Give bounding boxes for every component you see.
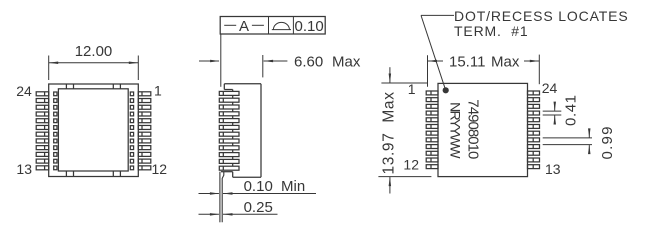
svg-text:24: 24 xyxy=(16,83,32,99)
svg-text:0.10: 0.10 xyxy=(244,178,273,195)
svg-text:0.99: 0.99 xyxy=(599,127,616,160)
svg-text:74908010: 74908010 xyxy=(465,99,482,159)
svg-text:Max: Max xyxy=(491,54,520,71)
svg-text:24: 24 xyxy=(542,80,558,96)
svg-text:Max: Max xyxy=(332,54,361,71)
svg-text:DOT/RECESS LOCATES: DOT/RECESS LOCATES xyxy=(454,8,629,24)
svg-text:12: 12 xyxy=(152,161,168,177)
svg-text:13: 13 xyxy=(545,161,561,177)
svg-text:13: 13 xyxy=(16,161,32,177)
svg-text:0.41: 0.41 xyxy=(563,95,580,126)
svg-text:15.11: 15.11 xyxy=(449,54,485,71)
svg-text:12: 12 xyxy=(403,157,419,173)
svg-text:1: 1 xyxy=(154,83,162,99)
svg-text:Min: Min xyxy=(281,178,305,195)
svg-text:A: A xyxy=(239,18,249,35)
svg-text:6.60: 6.60 xyxy=(294,54,323,71)
svg-text:13.97 Max: 13.97 Max xyxy=(380,92,397,175)
svg-text:12.00: 12.00 xyxy=(75,43,113,60)
svg-text:NRYYWW: NRYYWW xyxy=(448,102,464,159)
svg-text:0.10: 0.10 xyxy=(294,18,323,35)
svg-text:0.25: 0.25 xyxy=(244,199,273,216)
svg-text:TERM. #1: TERM. #1 xyxy=(454,23,529,39)
